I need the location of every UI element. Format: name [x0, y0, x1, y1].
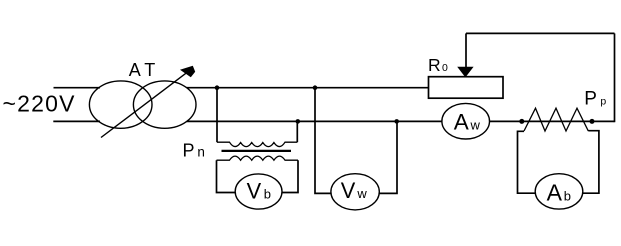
node junction left of photoresistor Pp	[519, 119, 524, 124]
wire Vw left branch	[315, 88, 331, 194]
svg-text:V: V	[247, 179, 262, 204]
svg-text:V: V	[341, 178, 356, 203]
svg-text:A: A	[547, 180, 563, 206]
wire Ab right branch	[583, 131, 599, 194]
svg-text:p: p	[600, 95, 606, 107]
wire primary right vertical	[296, 121, 298, 142]
wire secondary right down	[282, 160, 298, 192]
svg-text:w: w	[470, 117, 481, 132]
svg-text:b: b	[264, 187, 271, 202]
wire bottom bus right of Aw	[489, 120, 615, 122]
svg-text:w: w	[356, 186, 367, 201]
ammeter Ab	[535, 174, 583, 209]
wire Ab left branch	[518, 131, 536, 193]
wire Vw right branch	[379, 121, 397, 193]
wire top loop horizontal	[466, 32, 615, 34]
svg-text:R: R	[428, 55, 441, 75]
svg-text:P: P	[584, 89, 597, 110]
wire wiper up	[465, 33, 467, 67]
svg-text:P: P	[183, 141, 195, 161]
node junction on bottom bus at primary	[296, 119, 301, 124]
wire secondary left down	[217, 160, 236, 192]
svg-text:T: T	[144, 60, 155, 80]
wire bottom bus left stub	[53, 120, 100, 122]
voltmeter Vw	[331, 174, 379, 210]
svg-text:~220V: ~220V	[3, 91, 76, 117]
rheostat R0 body	[429, 77, 504, 99]
photoresistor Pp zigzag	[524, 108, 588, 131]
svg-text:n: n	[197, 145, 205, 160]
transformer Pn primary winding	[217, 142, 297, 146]
wire top bus left stub	[54, 87, 101, 89]
wire top loop right vertical	[614, 33, 616, 122]
svg-text:A: A	[129, 60, 141, 80]
transformer Pn core	[222, 150, 292, 152]
ammeter Aw	[442, 103, 490, 139]
node junction on top bus at transformer primary	[215, 85, 220, 90]
transformer Pn secondary winding	[217, 156, 299, 160]
node junction on bottom bus at Vw branch	[394, 119, 399, 124]
svg-text:b: b	[564, 189, 571, 204]
node junction right of photoresistor Pp	[590, 119, 595, 124]
autotransformer AT	[89, 66, 196, 138]
wire bottom bus	[187, 120, 443, 122]
wire primary left vertical	[216, 88, 218, 143]
node junction on top bus at Vw branch	[313, 85, 318, 90]
voltmeter Vb	[235, 174, 282, 209]
wire top bus	[187, 87, 430, 89]
svg-text:A: A	[454, 110, 469, 135]
svg-text:0: 0	[442, 62, 448, 74]
rheostat R0 wiper arrow	[457, 67, 473, 78]
